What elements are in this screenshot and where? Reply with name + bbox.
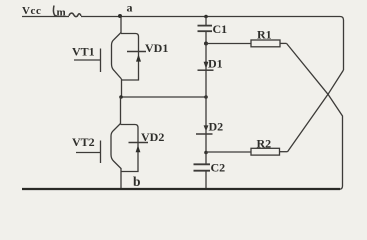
wire C1 to D1 bbox=[205, 44, 207, 64]
diode D2 bbox=[204, 125, 209, 131]
wire R2 to top-right (crossing line 2) bbox=[288, 70, 344, 152]
node R2 junction bbox=[204, 151, 208, 155]
diode VD2 bbox=[121, 125, 149, 172]
svg-text:VD1: VD1 bbox=[145, 41, 168, 55]
svg-text:VT2: VT2 bbox=[72, 135, 95, 149]
diode VD1 bbox=[121, 34, 146, 81]
svg-text:Vcc: Vcc bbox=[22, 5, 42, 17]
wire top rail bbox=[22, 17, 344, 71]
svg-text:VD2: VD2 bbox=[141, 130, 164, 144]
transistor VT1 bbox=[74, 17, 122, 98]
wire bottom rail bbox=[22, 188, 340, 190]
svg-text:C2: C2 bbox=[211, 161, 226, 175]
svg-text:R1: R1 bbox=[257, 27, 272, 41]
transistor VT2 bbox=[76, 97, 121, 189]
node a bbox=[118, 14, 122, 18]
node top C1 junction bbox=[204, 15, 208, 19]
wire D2 to R2 junction bbox=[205, 125, 207, 153]
node mid-left junction bbox=[119, 95, 123, 99]
wire mid rail bbox=[121, 96, 206, 98]
svg-text:VT1: VT1 bbox=[72, 45, 95, 59]
svg-text:D2: D2 bbox=[209, 120, 224, 134]
wire D1 to mid rail bbox=[205, 61, 207, 97]
node mid-right junction bbox=[204, 95, 208, 99]
diode D1 bbox=[204, 62, 209, 69]
svg-text:R2: R2 bbox=[257, 137, 272, 151]
capacitor C1 bbox=[198, 17, 213, 44]
resistor R2 bbox=[206, 148, 288, 155]
wire mid rail to D2 bbox=[205, 97, 207, 125]
svg-text:C1: C1 bbox=[213, 22, 228, 36]
wire R1 to bottom-right (crossing line 1) bbox=[287, 43, 343, 189]
svg-text:a: a bbox=[127, 1, 133, 15]
resistor R1 bbox=[206, 40, 287, 47]
svg-text:D1: D1 bbox=[208, 57, 223, 71]
inductor Lm bbox=[53, 6, 81, 17]
node R1 junction bbox=[204, 42, 208, 46]
capacitor C2 bbox=[194, 153, 211, 190]
svg-text:b: b bbox=[133, 174, 141, 189]
